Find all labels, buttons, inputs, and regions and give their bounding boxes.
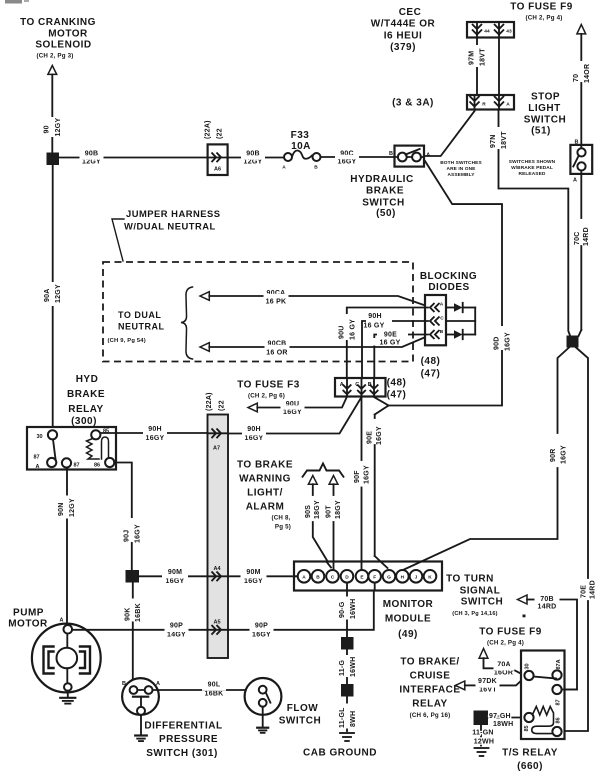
svg-text:SWITCH: SWITCH <box>461 597 503 608</box>
svg-text:I6 HEUI: I6 HEUI <box>384 31 423 42</box>
junction splice 11-GL <box>341 684 354 697</box>
arrow 97DK to brake/cruise relay <box>455 681 465 690</box>
wire 70A 16OR to T/S relay 30 <box>484 658 525 676</box>
corner artifact <box>5 0 29 4</box>
svg-text:C: C <box>331 575 335 581</box>
wire 90L 16BK to flow switch <box>153 682 259 698</box>
svg-text:DIFFERENTIAL: DIFFERENTIAL <box>144 721 222 732</box>
svg-text:D: D <box>345 575 349 581</box>
svg-text:97-GH: 97-GH <box>489 713 511 720</box>
svg-text:(48): (48) <box>387 378 407 389</box>
arrow to fuse F9 lower <box>479 649 488 659</box>
ground cab <box>340 733 354 741</box>
wire 97N 18VT <box>490 110 570 336</box>
svg-text:70: 70 <box>573 74 580 82</box>
node CEC W/T444E OR I6 HEUI (379) label <box>371 7 436 53</box>
svg-text:16GY: 16GY <box>338 159 357 166</box>
wire diode output bus <box>474 308 476 335</box>
brace dual neutral <box>181 287 193 359</box>
node TO BRAKE WARNING LIGHT/ALARM label <box>237 460 293 531</box>
svg-text:K: K <box>428 575 432 581</box>
svg-text:(22: (22 <box>219 400 226 411</box>
node TO FUSE F9 lower label <box>479 627 542 647</box>
arrow 70B to turn signal switch <box>518 595 528 604</box>
hydraulic brake switch (50) <box>350 146 430 219</box>
svg-text:A: A <box>302 575 306 581</box>
node TO DUAL NEUTRAL label <box>108 310 165 344</box>
svg-text:16 OR: 16 OR <box>266 350 287 357</box>
svg-text:(47): (47) <box>387 390 407 401</box>
svg-text:16GY: 16GY <box>561 445 568 464</box>
junction splice 70C <box>567 336 579 348</box>
svg-text:(CH 2, Pg 3): (CH 2, Pg 3) <box>36 53 73 60</box>
svg-text:10A: 10A <box>291 141 311 152</box>
node TO TURN SIGNAL SWITCH label <box>446 574 525 618</box>
connector blocking diodes pins A C B <box>425 295 446 345</box>
wire 70C 14RD from stop light switch A <box>574 174 590 336</box>
svg-text:H: H <box>401 575 405 581</box>
svg-text:F: F <box>373 575 376 581</box>
svg-text:16GY: 16GY <box>505 332 512 351</box>
svg-text:90-G: 90-G <box>339 601 346 618</box>
svg-text:16GY: 16GY <box>146 435 165 442</box>
svg-text:A: A <box>282 165 286 171</box>
wire 90T 18GY to monitor C <box>326 484 342 570</box>
junction splice 97-GH <box>474 711 489 726</box>
svg-text:16 PK: 16 PK <box>266 299 287 306</box>
svg-text:B: B <box>316 575 320 581</box>
node JUMPER HARNESS W/DUAL NEUTRAL label <box>112 208 221 261</box>
svg-text:16GY: 16GY <box>245 435 264 442</box>
svg-text:86: 86 <box>94 463 100 469</box>
wire 90H 16GY relay 85 to A7 <box>100 426 207 442</box>
svg-text:MOTOR: MOTOR <box>8 619 48 630</box>
svg-text:(CH 2, Pg 4): (CH 2, Pg 4) <box>487 640 524 647</box>
svg-text:C: C <box>440 315 444 321</box>
wire 11-G 16WH <box>339 650 357 685</box>
svg-text:(50): (50) <box>376 208 396 219</box>
ground T/S relay coil <box>475 748 489 756</box>
svg-text:87: 87 <box>556 699 562 705</box>
connector pins R A <box>467 95 514 110</box>
label (48) (47) at connector <box>387 378 407 401</box>
wire 90B 12GY to A6 <box>59 151 208 166</box>
svg-text:WARNING: WARNING <box>239 474 291 485</box>
svg-text:(CH 8,: (CH 8, <box>271 515 290 522</box>
wire 90 12GY vertical <box>44 74 63 152</box>
svg-text:SWITCH: SWITCH <box>362 198 404 209</box>
svg-text:16GY: 16GY <box>252 632 271 639</box>
svg-text:87: 87 <box>73 463 79 469</box>
jumper harness dashed box <box>103 262 413 362</box>
note SWITCHES SHOWN W/BRAKE PEDAL RELEASED <box>509 159 556 177</box>
svg-text:INTERFACE: INTERFACE <box>399 685 460 696</box>
svg-text:90D: 90D <box>494 336 501 350</box>
wire label gaps <box>50 45 514 729</box>
node PUMP MOTOR label <box>8 608 48 630</box>
wire 90E 16GY from connector B to monitor G <box>367 397 389 568</box>
wire 90F 16GY from connector C to monitor E <box>354 397 370 571</box>
svg-text:B: B <box>389 151 393 157</box>
label (48) (47) below blocking diodes <box>421 356 441 380</box>
wire 11-GL 8WH <box>339 697 357 732</box>
wire 90H 16 GY vertical to connector C <box>362 313 428 396</box>
svg-text:TO FUSE F9: TO FUSE F9 <box>510 2 573 13</box>
brace over brake warning arrows <box>302 464 344 478</box>
svg-text:18WH: 18WH <box>493 721 513 728</box>
svg-text:16 GY: 16 GY <box>379 340 400 347</box>
svg-text:TO BRAKE: TO BRAKE <box>237 460 293 471</box>
svg-text:BLOCKING: BLOCKING <box>420 271 477 282</box>
arrow 90CA to dual neutral <box>200 292 209 301</box>
wire 97DK 16VT from T/S relay 30 <box>465 678 525 694</box>
svg-text:97M: 97M <box>469 51 476 65</box>
svg-text:CEC: CEC <box>399 7 422 18</box>
svg-text:TO FUSE F3: TO FUSE F3 <box>237 380 300 391</box>
svg-text:SWITCHES SHOWN: SWITCHES SHOWN <box>509 159 556 165</box>
arrow 90U to fuse F3 <box>248 403 257 412</box>
svg-text:TO DUAL: TO DUAL <box>118 310 161 320</box>
wire 90U 16GY to fuse F3 <box>257 397 347 416</box>
svg-text:MONITOR: MONITOR <box>383 599 434 610</box>
wire 90H from connector C down to A7 <box>228 397 362 434</box>
wire 90U 16 GY vertical to connector A <box>338 308 428 397</box>
svg-text:90A: 90A <box>44 288 51 302</box>
svg-text:B: B <box>575 140 579 146</box>
svg-text:11-G: 11-G <box>339 660 346 676</box>
label (22A) (22 above strip <box>206 392 226 411</box>
svg-text:90: 90 <box>44 125 51 133</box>
wire 90P 16GY A5 to monitor F <box>228 591 374 639</box>
svg-text:A: A <box>156 681 160 687</box>
svg-text:A6: A6 <box>214 167 221 173</box>
wire 90S 18GY to monitor C <box>305 484 331 567</box>
svg-text:(49): (49) <box>398 629 418 640</box>
wire 90CB 16 OR <box>209 336 428 357</box>
svg-text:90E: 90E <box>367 431 374 444</box>
svg-text:Pg 5): Pg 5) <box>275 524 291 531</box>
svg-text:11-GL: 11-GL <box>339 707 346 728</box>
svg-text:HYDRAULIC: HYDRAULIC <box>350 174 413 185</box>
relay hyd brake (300) <box>27 427 116 470</box>
node CAB GROUND label <box>303 748 377 759</box>
svg-text:(22A): (22A) <box>206 392 213 411</box>
svg-text:16 GY: 16 GY <box>350 319 357 340</box>
wire 70 14OR <box>573 34 591 145</box>
svg-text:PUMP: PUMP <box>13 608 44 619</box>
svg-text:70E: 70E <box>581 585 588 598</box>
node TO CRANKING MOTOR SOLENOID label <box>20 17 96 60</box>
wire 90H 16GY A7 to connector C <box>245 426 264 442</box>
node T/S RELAY (660) label <box>502 748 558 771</box>
ground differential pressure switch <box>135 715 147 741</box>
wire 70B 14RD from T/S relay 87 <box>527 594 577 690</box>
arrow 90CB to dual neutral <box>200 343 209 352</box>
svg-text:90N: 90N <box>58 502 65 516</box>
wire 90M 16GY A4 to monitor A <box>228 569 298 585</box>
svg-text:16GY: 16GY <box>363 465 370 484</box>
switch stop light <box>570 140 592 184</box>
label (22A) (22 above A6 <box>205 120 224 139</box>
svg-text:SIGNAL: SIGNAL <box>460 586 501 597</box>
svg-text:ALARM: ALARM <box>246 502 285 513</box>
svg-text:14OR: 14OR <box>584 64 591 83</box>
svg-text:SOLENOID: SOLENOID <box>35 40 91 51</box>
svg-text:A7: A7 <box>213 446 220 452</box>
wire 90J 16GY relay 86 to splice <box>114 463 141 571</box>
svg-text:W/BRAKE PEDAL: W/BRAKE PEDAL <box>511 165 553 171</box>
svg-text:90F: 90F <box>354 470 361 483</box>
node TO BRAKE/CRUISE INTERFACE RELAY label <box>399 657 460 720</box>
node TO FUSE F3 label <box>237 380 300 400</box>
wire 90K 16BK splice to differential pressure switch B <box>124 583 142 687</box>
svg-text:87: 87 <box>33 455 39 461</box>
svg-text:CAB GROUND: CAB GROUND <box>303 748 377 759</box>
svg-text:(300): (300) <box>71 416 97 427</box>
arrow 90S up <box>308 476 317 485</box>
svg-text:TO BRAKE/: TO BRAKE/ <box>400 657 459 668</box>
svg-text:SWITCH: SWITCH <box>279 716 321 727</box>
svg-text:A4: A4 <box>213 566 221 572</box>
svg-text:JUMPER HARNESS: JUMPER HARNESS <box>126 208 221 219</box>
wire 90-G 16WH monitor D down <box>339 591 357 638</box>
svg-text:TO TURN: TO TURN <box>446 574 494 585</box>
svg-text:43: 43 <box>506 29 512 35</box>
svg-text:70B: 70B <box>540 596 554 603</box>
svg-text:SWITCH (301): SWITCH (301) <box>146 748 218 759</box>
svg-text:A: A <box>506 102 510 108</box>
connector CEC pins 44 43 <box>467 22 514 38</box>
connector A6 <box>208 144 228 175</box>
fuse F33 10A <box>282 130 320 171</box>
svg-text:BRAKE: BRAKE <box>67 389 105 400</box>
junction splice 90 <box>47 153 60 166</box>
svg-text:NEUTRAL: NEUTRAL <box>118 322 165 332</box>
svg-text:16GY: 16GY <box>376 426 383 445</box>
diode row B <box>446 330 475 339</box>
svg-text:(3 & 3A): (3 & 3A) <box>392 98 434 109</box>
svg-text:A: A <box>36 464 40 470</box>
switch flow <box>245 678 282 715</box>
junction splice 11-G <box>341 637 354 650</box>
svg-text:12GY: 12GY <box>69 498 76 517</box>
svg-text:90R: 90R <box>550 448 557 462</box>
svg-text:16BK: 16BK <box>135 603 142 622</box>
svg-text:B: B <box>440 329 444 335</box>
svg-text:G: G <box>387 575 391 581</box>
svg-text:A: A <box>573 178 577 184</box>
arrow to cranking motor solenoid <box>48 66 57 75</box>
svg-text:T/S RELAY: T/S RELAY <box>502 748 558 759</box>
wire 90N 12GY relay 87 to pump motor A <box>58 468 76 626</box>
svg-text:90T: 90T <box>326 505 333 518</box>
node FLOW SWITCH label <box>279 703 321 727</box>
svg-text:(51): (51) <box>531 126 551 137</box>
svg-text:44: 44 <box>484 29 490 35</box>
svg-text:A: A <box>60 618 64 624</box>
wire 90B 12GY to fuse F33 <box>228 151 284 166</box>
wire 97-GH 18WH to T/S relay 85 <box>488 713 525 728</box>
node BLOCKING DIODES label <box>420 271 477 293</box>
svg-text:12GY: 12GY <box>55 118 62 137</box>
svg-text:16WH: 16WH <box>350 657 357 677</box>
svg-text:14RD: 14RD <box>538 604 557 611</box>
svg-text:BRAKE: BRAKE <box>366 186 404 197</box>
relay T/S (660) <box>521 651 577 740</box>
svg-text:PRESSURE: PRESSURE <box>159 734 218 745</box>
switch differential pressure (301) <box>122 678 160 715</box>
svg-text:11-GN: 11-GN <box>472 730 493 737</box>
svg-text:85: 85 <box>524 725 530 731</box>
svg-text:RELAY: RELAY <box>68 404 103 415</box>
wire 90CA 16 PK <box>209 290 428 307</box>
svg-text:RELEASED: RELEASED <box>519 171 546 177</box>
svg-text:18GY: 18GY <box>335 500 342 519</box>
wire 90P 14GY pump motor A to A5 <box>72 623 207 639</box>
svg-text:12GY: 12GY <box>55 284 62 303</box>
connector monitor module <box>294 562 442 591</box>
svg-text:97N: 97N <box>490 134 497 148</box>
node MONITOR MODULE (49) label <box>383 599 434 640</box>
svg-text:FLOW: FLOW <box>287 703 318 714</box>
svg-text:16WH: 16WH <box>350 599 357 619</box>
svg-text:TO FUSE F9: TO FUSE F9 <box>479 627 542 638</box>
svg-text:(CH 6, Pg 16): (CH 6, Pg 16) <box>410 712 451 719</box>
ground pump motor <box>60 691 75 704</box>
svg-text:90H: 90H <box>368 313 382 320</box>
diode row C wire <box>446 320 475 322</box>
svg-text:16GY: 16GY <box>244 578 263 585</box>
node TO FUSE F9 top label <box>510 2 573 22</box>
wire 90E 16 GY diode B to connector B <box>372 332 428 397</box>
svg-text:(379): (379) <box>390 42 416 53</box>
svg-text:12WH: 12WH <box>474 739 494 746</box>
node HYD BRAKE RELAY (300) label <box>67 374 105 427</box>
svg-text:LIGHT/: LIGHT/ <box>247 488 283 499</box>
svg-text:18GY: 18GY <box>314 500 321 519</box>
svg-text:(CH 3, Pg 14,16): (CH 3, Pg 14,16) <box>452 611 497 617</box>
wire 90R 16GY to monitor H <box>403 348 569 571</box>
svg-text:14RD: 14RD <box>583 227 590 246</box>
svg-text:8WH: 8WH <box>350 711 357 727</box>
svg-text:MODULE: MODULE <box>385 614 431 625</box>
label (3 & 3A) <box>392 98 434 109</box>
svg-text:(47): (47) <box>421 369 441 380</box>
svg-text:16GY: 16GY <box>135 524 142 543</box>
svg-text:30: 30 <box>525 663 531 669</box>
svg-text:(CH 2, Pg 6): (CH 2, Pg 6) <box>248 393 285 400</box>
svg-text:(CH 9, Pg 54): (CH 9, Pg 54) <box>108 338 146 344</box>
svg-text:70C: 70C <box>574 231 581 245</box>
svg-text:16OR: 16OR <box>494 670 513 677</box>
svg-text:87A: 87A <box>556 659 562 669</box>
svg-text:90J: 90J <box>124 530 131 542</box>
wire 70E 14RD to T/S relay 86 <box>565 348 595 732</box>
svg-text:F33: F33 <box>291 130 310 141</box>
svg-text:(48): (48) <box>421 356 441 367</box>
svg-text:LIGHT: LIGHT <box>528 103 561 114</box>
svg-text:HYD: HYD <box>76 374 99 385</box>
wire 11-GN 12WH to ground <box>472 725 494 746</box>
arrow to fuse F9 <box>577 25 586 34</box>
note BOTH SWITCHES ARE IN ONE ASSEMBLY <box>440 160 482 178</box>
node STOP LIGHT SWITCH (51) label <box>524 92 566 137</box>
motor pump <box>32 618 101 693</box>
svg-text:DIODES: DIODES <box>428 282 469 293</box>
junction splice 90M <box>126 570 140 583</box>
connector TO FUSE F3 pins A C B <box>335 378 386 397</box>
wire 90D 16GY bypass <box>375 161 512 415</box>
svg-text:16GY: 16GY <box>283 409 302 416</box>
node DIFFERENTIAL PRESSURE SWITCH (301) label <box>144 721 222 760</box>
svg-text:J: J <box>415 575 418 581</box>
svg-text:16 GY: 16 GY <box>363 323 384 330</box>
svg-text:B: B <box>122 681 126 687</box>
svg-text:16GY: 16GY <box>166 578 185 585</box>
svg-text:BOTH SWITCHES: BOTH SWITCHES <box>440 160 482 166</box>
svg-text:90S: 90S <box>305 505 312 518</box>
connector strip A7 A4 A5 <box>208 415 229 659</box>
svg-text:16BK: 16BK <box>205 691 224 698</box>
svg-text:A: A <box>440 302 444 308</box>
svg-text:TO CRANKING: TO CRANKING <box>20 17 96 28</box>
svg-text:W/T444E OR: W/T444E OR <box>371 19 436 30</box>
wire 90M 16GY splice to A4 <box>139 569 208 585</box>
svg-text:W/DUAL NEUTRAL: W/DUAL NEUTRAL <box>124 221 216 232</box>
svg-text:90E: 90E <box>384 332 397 339</box>
svg-text:(22A): (22A) <box>205 120 212 139</box>
svg-text:ASSEMBLY: ASSEMBLY <box>447 172 475 178</box>
svg-text:B: B <box>314 165 318 171</box>
svg-text:(22: (22 <box>217 128 224 139</box>
diode row A <box>446 303 475 312</box>
svg-text:R: R <box>482 102 486 108</box>
svg-text:ARE IN ONE: ARE IN ONE <box>447 166 477 172</box>
svg-text:MOTOR: MOTOR <box>48 29 88 40</box>
svg-text:90U: 90U <box>338 325 345 339</box>
svg-text:18VT: 18VT <box>501 131 508 149</box>
svg-text:30: 30 <box>36 434 42 440</box>
svg-text:86: 86 <box>556 717 562 723</box>
wire 97M 18VT <box>469 38 487 96</box>
svg-text:18VT: 18VT <box>480 48 487 66</box>
arrow 90T up <box>329 476 338 485</box>
svg-text:RELAY: RELAY <box>412 699 447 710</box>
svg-text:SWITCH: SWITCH <box>524 115 566 126</box>
svg-text:CRUISE: CRUISE <box>410 671 451 682</box>
ground flow switch <box>257 707 268 733</box>
wire switch A to CEC connector R <box>424 111 475 156</box>
svg-text:(CH 2, Pg 4): (CH 2, Pg 4) <box>525 15 562 22</box>
svg-text:STOP: STOP <box>531 92 560 103</box>
svg-text:(660): (660) <box>517 761 543 771</box>
svg-text:14GY: 14GY <box>167 632 186 639</box>
wire pin 43 down <box>498 38 500 96</box>
wire 90A 12GY to relay 30 <box>44 165 62 431</box>
wire 90C 16GY <box>321 151 394 166</box>
svg-text:14RD: 14RD <box>590 580 595 599</box>
